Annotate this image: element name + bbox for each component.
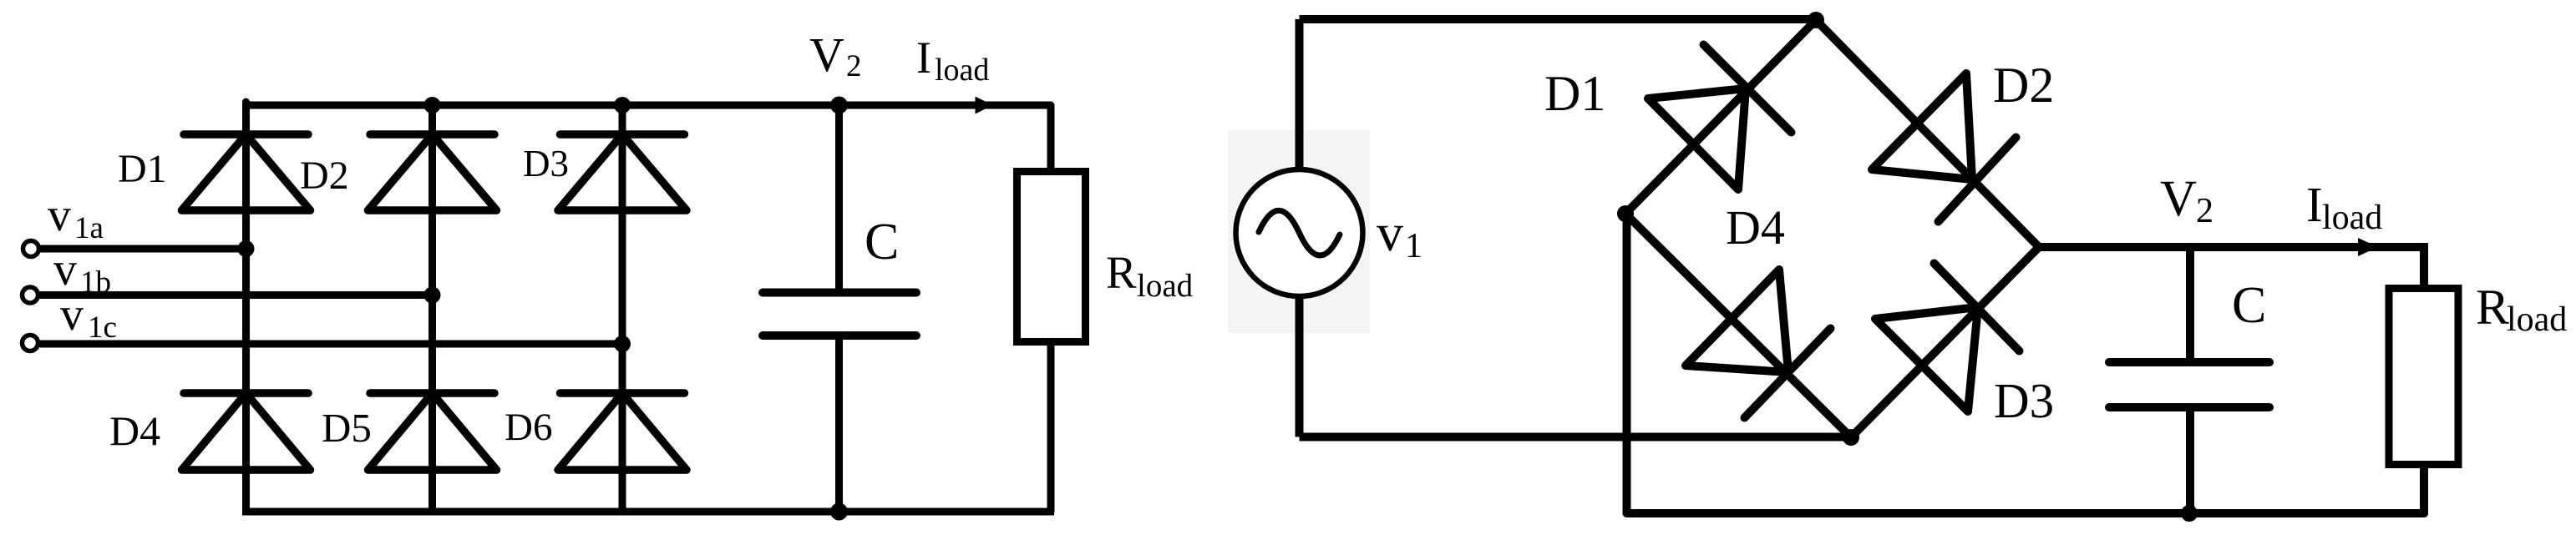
diode D4 <box>182 393 311 470</box>
wire leg 3 (D3/D6 vertical) <box>619 105 626 512</box>
wire R_load bottom <box>2420 468 2428 513</box>
arrow I_load (right) <box>2358 238 2378 256</box>
wire bridge edge left-top <box>1625 20 1816 214</box>
wire bridge edge left-bottom <box>1625 214 1851 437</box>
diode D1 (bridge) <box>1648 45 1792 190</box>
svg-text:I: I <box>916 33 931 83</box>
resistor R_load (right) <box>2389 289 2458 465</box>
node phase b / leg2 <box>424 287 441 304</box>
node phase c / leg3 <box>614 336 631 352</box>
svg-text:C: C <box>2232 277 2266 334</box>
wire capacitor branch lower (right) <box>2186 411 2194 513</box>
gray highlight box behind source <box>1228 130 1370 333</box>
svg-text:load: load <box>2507 300 2567 339</box>
svg-text:D3: D3 <box>1994 373 2054 428</box>
svg-text:I: I <box>2306 177 2323 232</box>
svg-text:D3: D3 <box>523 143 569 184</box>
terminal v1a <box>23 241 39 257</box>
svg-text:v: v <box>60 289 84 341</box>
svg-text:D1: D1 <box>1544 66 1605 121</box>
terminal v1b <box>23 287 38 303</box>
svg-text:D4: D4 <box>1726 200 1785 255</box>
svg-text:load: load <box>1137 268 1194 304</box>
wire bottom bus (- rail) <box>242 508 1054 516</box>
svg-text:V: V <box>809 28 844 82</box>
svg-text:v: v <box>48 189 71 241</box>
node phase a / leg1 <box>238 240 255 257</box>
svg-text:1: 1 <box>1405 227 1422 265</box>
svg-text:C: C <box>865 214 899 270</box>
svg-text:load: load <box>935 53 989 88</box>
wire bridge left node down <box>1623 214 1631 513</box>
wire phase b input <box>41 291 433 299</box>
wire lower return bus <box>1627 509 2425 517</box>
wire capacitor branch upper (right) <box>2186 247 2194 359</box>
wire R_load branch lower <box>1047 346 1055 512</box>
wire phase c input <box>41 341 622 348</box>
terminal v1c <box>23 336 38 351</box>
svg-text:1c: 1c <box>88 310 117 345</box>
wire v1 bottom to bridge bottom node <box>1300 433 1852 442</box>
wire leg 1 (D1/D4 vertical) <box>242 102 250 512</box>
node bridge left <box>1617 205 1634 222</box>
svg-text:2: 2 <box>2196 192 2213 230</box>
wire top bus to bridge top <box>1300 15 1817 23</box>
wire output (right node to R_load) <box>2039 247 2424 285</box>
svg-text:D1: D1 <box>118 147 167 191</box>
svg-text:D6: D6 <box>505 406 552 449</box>
diode D2 (bridge) <box>1872 73 2016 222</box>
diode D2 <box>368 134 497 210</box>
svg-text:D2: D2 <box>1993 58 2054 113</box>
diode D1 <box>182 134 311 210</box>
svg-text:D4: D4 <box>109 407 160 454</box>
diode D5 <box>368 393 497 470</box>
svg-text:D5: D5 <box>322 405 372 451</box>
node V2 (top bus / capacitor) <box>830 97 848 114</box>
node top bus / leg3 <box>614 97 631 114</box>
wire capacitor branch upper <box>835 105 843 290</box>
svg-text:R: R <box>1106 247 1137 298</box>
resistor R_load (left) <box>1017 172 1086 342</box>
node bottom bus / capacitor (right) <box>2181 505 2198 522</box>
diode D4 (bridge) <box>1686 270 1831 418</box>
node bridge top <box>1808 12 1824 28</box>
svg-text:1b: 1b <box>80 265 111 300</box>
capacitor C (right) <box>2109 362 2269 407</box>
svg-text:V: V <box>2160 171 2197 227</box>
svg-text:R: R <box>2476 280 2509 335</box>
svg-text:v: v <box>1377 203 1403 262</box>
wire capacitor branch lower <box>835 338 843 512</box>
wire bridge edge bottom-right <box>1851 247 2039 437</box>
diode D6 <box>558 393 687 470</box>
diode D3 (bridge) <box>1875 264 2020 412</box>
wire top bus (+ rail) <box>242 102 1051 109</box>
capacitor C (left) <box>763 293 916 336</box>
wire v1 to top bus <box>1296 19 1304 168</box>
wire v1 bottom <box>1296 298 1304 437</box>
diode D3 <box>558 134 687 210</box>
node bridge bottom <box>1843 429 1859 446</box>
wire phase a input <box>41 245 246 253</box>
svg-text:1a: 1a <box>74 211 104 245</box>
arrow I_load (left) <box>976 97 993 114</box>
wire leg 2 (D2/D5 vertical) <box>428 105 436 512</box>
AC source v1 <box>1236 169 1363 296</box>
bridge edges <box>1625 20 2039 437</box>
wire bridge edge top-right <box>1816 20 2039 247</box>
svg-text:D2: D2 <box>300 154 349 198</box>
node top bus / leg2 <box>424 97 441 114</box>
svg-text:v: v <box>53 244 77 295</box>
svg-text:load: load <box>2322 199 2382 237</box>
node bottom bus / capacitor <box>830 503 848 521</box>
wire R_load branch upper <box>1047 105 1055 168</box>
sine symbol <box>1259 210 1340 255</box>
svg-text:2: 2 <box>846 49 862 83</box>
